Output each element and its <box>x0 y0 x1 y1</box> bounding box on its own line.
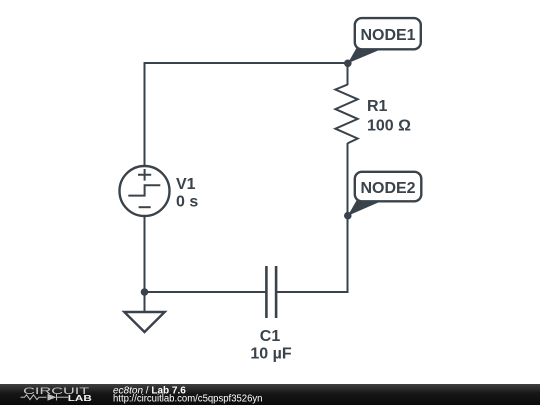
wire R1 bottom to corner to C1 right plate <box>276 143 348 292</box>
svg-text:C1: C1 <box>260 328 281 345</box>
voltage source V1 <box>120 166 170 216</box>
svg-text:LAB: LAB <box>68 393 92 403</box>
resistor R1 <box>335 85 357 144</box>
ground <box>124 292 164 332</box>
footer bar <box>0 384 540 405</box>
svg-text:NODE1: NODE1 <box>360 27 415 44</box>
svg-text:V1: V1 <box>176 176 196 193</box>
wire ground junction to C1 left plate <box>145 291 266 293</box>
svg-text:10 µF: 10 µF <box>250 346 291 363</box>
capacitor C1 <box>266 266 276 318</box>
node flag NODE2 <box>348 172 422 216</box>
node NODE2 dot <box>344 212 352 220</box>
svg-text:http://circuitlab.com/c5qpspf3: http://circuitlab.com/c5qpspf3526yn <box>113 393 263 404</box>
svg-text:NODE2: NODE2 <box>360 180 415 197</box>
node NODE1 dot <box>344 60 352 68</box>
svg-text:0 s: 0 s <box>176 194 198 211</box>
wire V1 top to NODE1 <box>145 63 348 166</box>
wire NODE1 to R1 top <box>347 63 349 85</box>
node flag NODE1 <box>348 18 421 63</box>
wire V1 bottom to ground junction <box>144 216 146 292</box>
svg-text:R1: R1 <box>367 98 388 115</box>
CircuitLab logo schematic line (resistor + diode) <box>21 394 69 401</box>
junction dot at ground node <box>141 288 149 296</box>
svg-text:100 Ω: 100 Ω <box>367 118 411 135</box>
